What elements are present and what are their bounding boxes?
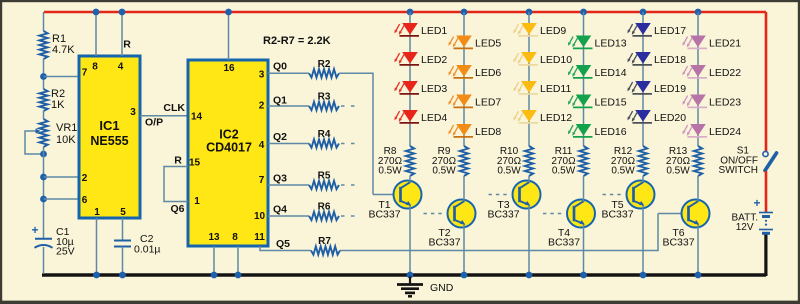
- wire IC2 Q5 output: [260, 246, 311, 251]
- svg-text:R5: R5: [318, 171, 331, 182]
- svg-text:LED13: LED13: [595, 38, 627, 50]
- wire R11 to T4 collector: [583, 176, 585, 202]
- wire R7 to T6 base: [340, 250, 658, 252]
- wire IC2 Q0 output: [268, 72, 309, 74]
- svg-text:VR1: VR1: [56, 122, 77, 134]
- wire LED column 5: [642, 12, 644, 146]
- LED7: [456, 95, 472, 107]
- switch S1 terminal: [763, 151, 768, 156]
- svg-text:NE555: NE555: [90, 134, 128, 148]
- svg-text:0.5W: 0.5W: [497, 166, 521, 177]
- svg-text:LED4: LED4: [421, 112, 447, 124]
- svg-text:2: 2: [82, 173, 88, 184]
- svg-text:LED2: LED2: [421, 54, 447, 66]
- svg-text:16: 16: [223, 63, 235, 74]
- wire IC2 pin 13 to ground: [213, 246, 215, 274]
- svg-text:IC1: IC1: [99, 118, 119, 133]
- wire T4 emitter to ground: [583, 225, 585, 275]
- node T6 emitter ground junction: [695, 272, 702, 279]
- wire R5 continuation (dashed): [341, 184, 356, 186]
- wire R1 to R2: [43, 59, 45, 89]
- wire T6 emitter to ground: [697, 225, 699, 275]
- wire T3 emitter to ground: [528, 206, 530, 275]
- svg-text:7: 7: [82, 68, 88, 79]
- ground symbol: [409, 277, 411, 285]
- wire T2 emitter to ground: [463, 225, 465, 275]
- LED12: [521, 110, 537, 122]
- svg-text:10K: 10K: [56, 134, 76, 146]
- resistor R2: [39, 89, 47, 111]
- svg-text:Q0: Q0: [273, 61, 287, 73]
- svg-text:LED6: LED6: [475, 67, 501, 79]
- LED19: [635, 81, 651, 93]
- node pin8 ground junction: [235, 272, 242, 279]
- node pin1 ground junction: [93, 272, 100, 279]
- svg-text:LED3: LED3: [421, 83, 447, 95]
- wire IC2 Q3 output: [268, 184, 309, 186]
- LED15: [576, 95, 592, 107]
- resistor R13: [694, 146, 702, 176]
- svg-text:0.5W: 0.5W: [611, 166, 635, 177]
- svg-text:BC337: BC337: [548, 237, 580, 249]
- wire T3 base (dashed): [489, 194, 511, 196]
- node pin13 ground junction: [211, 272, 218, 279]
- LED18: [635, 52, 651, 64]
- wire IC1 pin 8 to +V: [95, 12, 97, 56]
- LED4: [402, 110, 418, 122]
- svg-text:LED7: LED7: [475, 97, 501, 109]
- svg-text:LED19: LED19: [654, 83, 686, 95]
- wire IC1 pin 4 to +V: [121, 12, 123, 56]
- svg-text:2: 2: [259, 101, 265, 112]
- svg-text:+: +: [32, 223, 39, 237]
- transistor T6 BC337: [682, 200, 710, 228]
- LED16: [576, 124, 592, 136]
- svg-text:0.01µ: 0.01µ: [134, 244, 161, 256]
- node pin8 rail junction: [93, 9, 100, 16]
- svg-text:LED24: LED24: [709, 126, 741, 138]
- wire LED column 2: [463, 12, 465, 146]
- svg-text:12V: 12V: [736, 222, 754, 233]
- svg-text:4: 4: [118, 62, 124, 73]
- transistor T5 BC337: [627, 181, 655, 209]
- node T4 emitter ground junction: [580, 272, 587, 279]
- wire C2 to ground: [122, 247, 124, 275]
- op-amp IC2 CD4017 body: [188, 60, 268, 246]
- node LED column 4 rail junction: [580, 9, 587, 16]
- svg-text:4: 4: [259, 140, 265, 151]
- resistor R3: [309, 102, 339, 110]
- resistor R1: [39, 31, 47, 59]
- LED2: [402, 52, 418, 64]
- svg-text:IC2: IC2: [219, 128, 239, 142]
- svg-text:LED20: LED20: [654, 112, 686, 124]
- svg-text:Q2: Q2: [273, 131, 287, 143]
- node T1 emitter ground junction: [407, 272, 414, 279]
- svg-text:BC337: BC337: [428, 237, 460, 249]
- svg-text:LED11: LED11: [540, 83, 571, 95]
- svg-text:+: +: [754, 196, 761, 210]
- svg-text:7: 7: [259, 175, 265, 186]
- svg-text:R2-R7 = 2.2K: R2-R7 = 2.2K: [263, 35, 331, 47]
- node C2 ground junction: [119, 272, 126, 279]
- svg-text:3: 3: [259, 70, 265, 81]
- svg-text:25V: 25V: [56, 246, 75, 258]
- svg-text:4.7K: 4.7K: [52, 44, 75, 56]
- svg-text:Q6: Q6: [170, 203, 184, 215]
- LED22: [690, 65, 706, 77]
- svg-text:5: 5: [120, 207, 126, 218]
- svg-text:6: 6: [82, 195, 88, 206]
- svg-text:10: 10: [254, 211, 266, 222]
- wire +V right drop to switch (red): [765, 12, 768, 151]
- wire LED column 3: [528, 12, 530, 146]
- node pin4 rail junction: [119, 9, 126, 16]
- wire IC2 Q2 output: [268, 143, 309, 145]
- wire IC2 pin 8 to ground: [237, 246, 239, 274]
- svg-text:R3: R3: [318, 92, 331, 103]
- wire junction to IC1 pin 2: [44, 176, 80, 178]
- resistor R4: [309, 139, 339, 147]
- node LED column 1 rail junction: [407, 9, 414, 16]
- svg-text:LED12: LED12: [540, 112, 572, 124]
- wire T2 base (dashed): [424, 213, 446, 215]
- LED3: [402, 81, 418, 93]
- transistor T4 BC337: [567, 200, 595, 228]
- svg-text:O/P: O/P: [145, 117, 163, 129]
- wire T4 base (dashed): [543, 213, 565, 215]
- svg-text:LED1: LED1: [421, 25, 447, 37]
- wire R13 to T6 collector: [697, 176, 699, 202]
- wire R2 to VR1: [43, 111, 45, 119]
- node T5 emitter ground junction: [640, 272, 647, 279]
- svg-text:14: 14: [191, 112, 203, 123]
- svg-text:8: 8: [92, 62, 98, 73]
- resistor R8: [406, 146, 414, 176]
- wire IC2 pin 16 to +V: [228, 12, 230, 60]
- wire T1 emitter to ground: [409, 206, 411, 275]
- svg-text:Q4: Q4: [273, 204, 287, 216]
- resistor R9: [460, 146, 468, 176]
- svg-text:LED23: LED23: [709, 97, 741, 109]
- wire R9 to T2 collector: [463, 176, 465, 202]
- resistor R7: [311, 246, 340, 254]
- svg-text:BC337: BC337: [662, 237, 694, 249]
- svg-text:BC337: BC337: [601, 209, 633, 221]
- LED1: [402, 23, 418, 35]
- wire ground rail (bottom, black): [42, 273, 766, 276]
- wire VR1 wiper arm: [25, 131, 44, 154]
- svg-text:CD4017: CD4017: [206, 141, 252, 155]
- svg-text:CLK: CLK: [163, 102, 185, 114]
- resistor R10: [525, 146, 533, 176]
- node VR1 wiper junction: [40, 151, 47, 158]
- LED17: [635, 23, 651, 35]
- wire R12 to T5 collector: [642, 176, 644, 183]
- svg-text:LED21: LED21: [709, 38, 741, 50]
- wire R4 continuation (dashed): [341, 143, 356, 145]
- resistor R11: [579, 146, 587, 176]
- svg-text:GND: GND: [430, 282, 454, 294]
- node T2 emitter ground junction: [461, 272, 468, 279]
- svg-text:0.5W: 0.5W: [666, 166, 690, 177]
- LED23: [690, 95, 706, 107]
- wire switch to battery (red): [765, 171, 768, 212]
- wire junction to IC1 pin 7: [44, 76, 80, 78]
- svg-text:R: R: [174, 155, 182, 167]
- LED8: [456, 124, 472, 136]
- svg-text:LED22: LED22: [709, 67, 741, 79]
- op-amp IC1 NE555 body: [79, 56, 140, 218]
- LED24: [690, 124, 706, 136]
- svg-text:0.5W: 0.5W: [378, 166, 402, 177]
- svg-text:Q5: Q5: [276, 238, 290, 250]
- wire junction to IC1 pin 6: [44, 198, 80, 200]
- svg-text:R: R: [123, 39, 131, 51]
- svg-text:LED15: LED15: [595, 97, 627, 109]
- node R1/R2/pin7 junction: [40, 73, 47, 80]
- potentiometer VR1: [39, 119, 47, 147]
- LED9: [521, 23, 537, 35]
- resistor R6: [309, 212, 339, 220]
- wire IC2 Q1 output: [268, 105, 309, 107]
- svg-text:Q3: Q3: [273, 173, 287, 185]
- svg-text:LED16: LED16: [595, 126, 627, 138]
- svg-text:LED18: LED18: [654, 54, 686, 66]
- transistor T2 BC337: [448, 200, 476, 228]
- wire LED column 1: [409, 12, 411, 146]
- svg-text:LED9: LED9: [540, 25, 566, 37]
- node LED column 6 rail junction: [695, 9, 702, 16]
- wire R6 continuation (dashed): [341, 215, 356, 217]
- LED10: [521, 52, 537, 64]
- LED11: [521, 81, 537, 93]
- svg-text:LED17: LED17: [654, 25, 686, 37]
- capacitor C2: [114, 240, 131, 242]
- LED14: [576, 65, 592, 77]
- svg-text:LED5: LED5: [475, 38, 501, 50]
- wire IC1 pin 1 to ground: [96, 218, 98, 274]
- svg-text:0.5W: 0.5W: [432, 166, 456, 177]
- svg-text:1: 1: [94, 207, 100, 218]
- svg-text:11: 11: [254, 232, 265, 243]
- svg-text:R6: R6: [318, 202, 331, 213]
- LED6: [456, 65, 472, 77]
- wire LED column 6: [697, 12, 699, 146]
- node pin16 rail junction: [225, 9, 232, 16]
- svg-text:8: 8: [232, 232, 238, 243]
- wire IC2 pin 15 to pin 1 (reset loop): [164, 167, 188, 202]
- svg-text:15: 15: [189, 158, 201, 169]
- svg-text:R2: R2: [318, 59, 331, 70]
- svg-text:1: 1: [194, 196, 200, 207]
- wire T5 base (dashed): [603, 194, 625, 196]
- svg-text:SWITCH: SWITCH: [719, 165, 758, 176]
- svg-text:3: 3: [130, 107, 136, 118]
- svg-text:R7: R7: [318, 236, 331, 247]
- wire T5 emitter to ground: [642, 206, 644, 275]
- resistor R5: [309, 181, 339, 189]
- transistor T3 BC337: [513, 181, 541, 209]
- svg-text:BC337: BC337: [368, 209, 400, 221]
- LED5: [456, 36, 472, 48]
- wire +V rail (top, red): [44, 11, 766, 14]
- LED13: [576, 36, 592, 48]
- LED20: [635, 110, 651, 122]
- wire LED column 4: [583, 12, 585, 146]
- battery BATT. 12V: [759, 212, 773, 214]
- capacitor C1 (electrolytic): [35, 238, 52, 240]
- svg-text:LED10: LED10: [540, 54, 572, 66]
- wire battery negative to ground rail (black): [764, 233, 767, 276]
- node T3 emitter ground junction: [526, 272, 533, 279]
- transistor T1 BC337: [394, 181, 422, 209]
- svg-text:LED8: LED8: [475, 126, 501, 138]
- wire IC1 pin 5 to C2: [122, 218, 124, 240]
- svg-text:LED14: LED14: [595, 67, 627, 79]
- wire IC1 pin 3 to IC2 pin 14 (clock): [140, 115, 188, 117]
- svg-text:1K: 1K: [51, 99, 65, 111]
- node pin6 junction: [40, 196, 47, 203]
- node LED column 5 rail junction: [640, 9, 647, 16]
- node LED column 3 rail junction: [526, 9, 533, 16]
- resistor R2: [309, 69, 339, 77]
- node pin2 junction: [40, 174, 47, 181]
- LED21: [690, 36, 706, 48]
- node LED column 2 rail junction: [461, 9, 468, 16]
- wire VR1 to C1: [43, 147, 45, 239]
- svg-text:R4: R4: [318, 129, 331, 140]
- wire R8 to T1 collector: [409, 176, 411, 183]
- svg-text:13: 13: [208, 232, 220, 243]
- resistor R12: [639, 146, 647, 176]
- wire IC2 Q4 output: [268, 215, 309, 217]
- wire R10 to T3 collector: [528, 176, 530, 183]
- svg-text:0.5W: 0.5W: [552, 166, 576, 177]
- wire R2 to T1 base: [339, 72, 373, 74]
- wire left rail top segment: [43, 12, 45, 31]
- svg-text:Q1: Q1: [273, 95, 287, 107]
- switch S1 lever: [765, 153, 777, 171]
- svg-text:BC337: BC337: [487, 209, 519, 221]
- wire C1 to ground rail: [43, 247, 45, 274]
- wire R3 continuation (dashed): [341, 105, 356, 107]
